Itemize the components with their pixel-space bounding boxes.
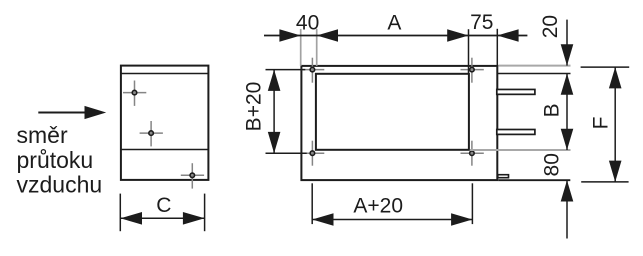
screw marker S2 xyxy=(140,121,163,146)
screw marker S5 top-right xyxy=(461,58,484,83)
svg-text:B+20: B+20 xyxy=(243,82,266,132)
svg-text:C: C xyxy=(156,194,171,217)
screw marker S6 bottom-left xyxy=(301,141,324,166)
screw marker S3 xyxy=(181,163,204,188)
screw marker S7 bottom-right xyxy=(461,141,484,166)
connection pin P2 xyxy=(497,130,535,135)
dimension A+20 extension left xyxy=(311,183,313,224)
dimension A+20 extension right xyxy=(471,183,473,224)
air flow arrow xyxy=(38,106,106,119)
svg-text:A+20: A+20 xyxy=(353,195,403,218)
air flow direction label xyxy=(17,122,103,197)
top dim extension line (A right / 75 left) xyxy=(468,29,470,74)
dimension B+20 line with arrows xyxy=(268,70,281,154)
dimension C extension line right xyxy=(204,194,206,232)
right extension line unit-top (gray) xyxy=(499,65,571,67)
dimension F bottom boundary line xyxy=(581,181,628,183)
dimension F line with arrows xyxy=(609,67,622,182)
right extension line inner-top xyxy=(498,73,571,75)
svg-text:F: F xyxy=(590,117,613,130)
svg-text:B: B xyxy=(541,103,564,117)
svg-text:75: 75 xyxy=(470,11,493,34)
dimension B+20 extension bottom xyxy=(266,152,307,154)
drain stub xyxy=(498,175,509,178)
side-view unit body xyxy=(301,66,497,180)
svg-text:průtoku: průtoku xyxy=(17,147,94,173)
top dim extension line (40 right / A left, gray) xyxy=(316,29,318,66)
dimension C extension line left xyxy=(119,194,121,232)
svg-text:80: 80 xyxy=(541,153,564,176)
front-view box xyxy=(121,66,208,180)
front-view top flange line xyxy=(120,73,209,75)
dimension 80 line (bottom tail with arrow) xyxy=(561,180,574,238)
svg-text:A: A xyxy=(387,11,401,34)
side-view inner panel xyxy=(316,74,469,150)
svg-text:vzduchu: vzduchu xyxy=(17,171,103,197)
dimension A+20 line with arrows xyxy=(312,213,472,226)
screw marker S4 top-left xyxy=(301,58,324,83)
right extension line inner-bottom (gray) xyxy=(470,149,571,151)
dimension C line xyxy=(120,212,204,225)
dimension F top boundary line xyxy=(581,66,630,68)
right extension line unit-bottom xyxy=(498,179,570,181)
connection pin P1 xyxy=(497,89,535,94)
svg-text:20: 20 xyxy=(539,15,562,38)
screw marker S1 xyxy=(123,81,146,106)
top dim extension line (75 right) xyxy=(496,29,498,66)
dimension B line with arrows xyxy=(561,74,574,151)
svg-text:směr: směr xyxy=(17,122,68,148)
dimension 20 line (top tail with arrow) xyxy=(561,20,574,66)
top dim extension line (40 left, gray) xyxy=(300,29,302,66)
svg-text:40: 40 xyxy=(296,11,319,34)
front-view bottom section line xyxy=(120,149,209,151)
top dimension line with arrows xyxy=(264,29,527,42)
dimension B+20 extension top xyxy=(266,69,306,71)
